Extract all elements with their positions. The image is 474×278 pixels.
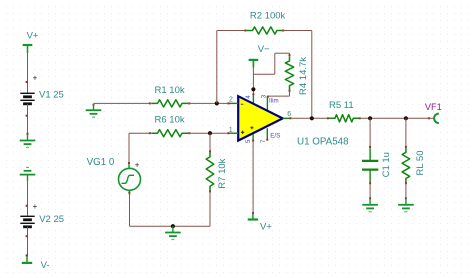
svg-text:C1 1u: C1 1u xyxy=(381,152,392,177)
svg-text:+: + xyxy=(33,74,38,83)
svg-text:R4 14.7k: R4 14.7k xyxy=(298,57,309,95)
svg-text:3: 3 xyxy=(261,94,267,98)
svg-text:V2 25: V2 25 xyxy=(39,214,64,225)
svg-text:E/S: E/S xyxy=(270,132,280,139)
svg-text:R6 10k: R6 10k xyxy=(155,114,185,125)
svg-text:4: 4 xyxy=(246,95,252,99)
svg-text:VG1 0: VG1 0 xyxy=(87,157,115,168)
svg-text:+: + xyxy=(135,160,140,169)
svg-text:5: 5 xyxy=(246,139,252,143)
svg-text:+: + xyxy=(33,202,38,211)
svg-text:7: 7 xyxy=(261,139,267,143)
svg-text:1: 1 xyxy=(229,127,233,134)
svg-text:U1 OPA548: U1 OPA548 xyxy=(297,137,349,148)
svg-text:R5 11: R5 11 xyxy=(329,100,354,111)
svg-text:VF1: VF1 xyxy=(425,102,442,112)
svg-text:V+: V+ xyxy=(27,31,39,42)
svg-text:R2 100k: R2 100k xyxy=(250,10,286,21)
svg-text:R7 10k: R7 10k xyxy=(217,158,228,188)
svg-text:Ilim: Ilim xyxy=(269,98,279,105)
svg-text:V1 25: V1 25 xyxy=(39,89,64,100)
svg-text:V−: V− xyxy=(258,44,270,55)
svg-text:6: 6 xyxy=(287,111,291,118)
svg-text:V+: V+ xyxy=(260,221,272,232)
svg-text:V-: V- xyxy=(41,260,50,271)
svg-text:R1 10k: R1 10k xyxy=(155,85,185,96)
svg-text:RL 50: RL 50 xyxy=(415,151,426,176)
svg-text:2: 2 xyxy=(229,97,233,104)
